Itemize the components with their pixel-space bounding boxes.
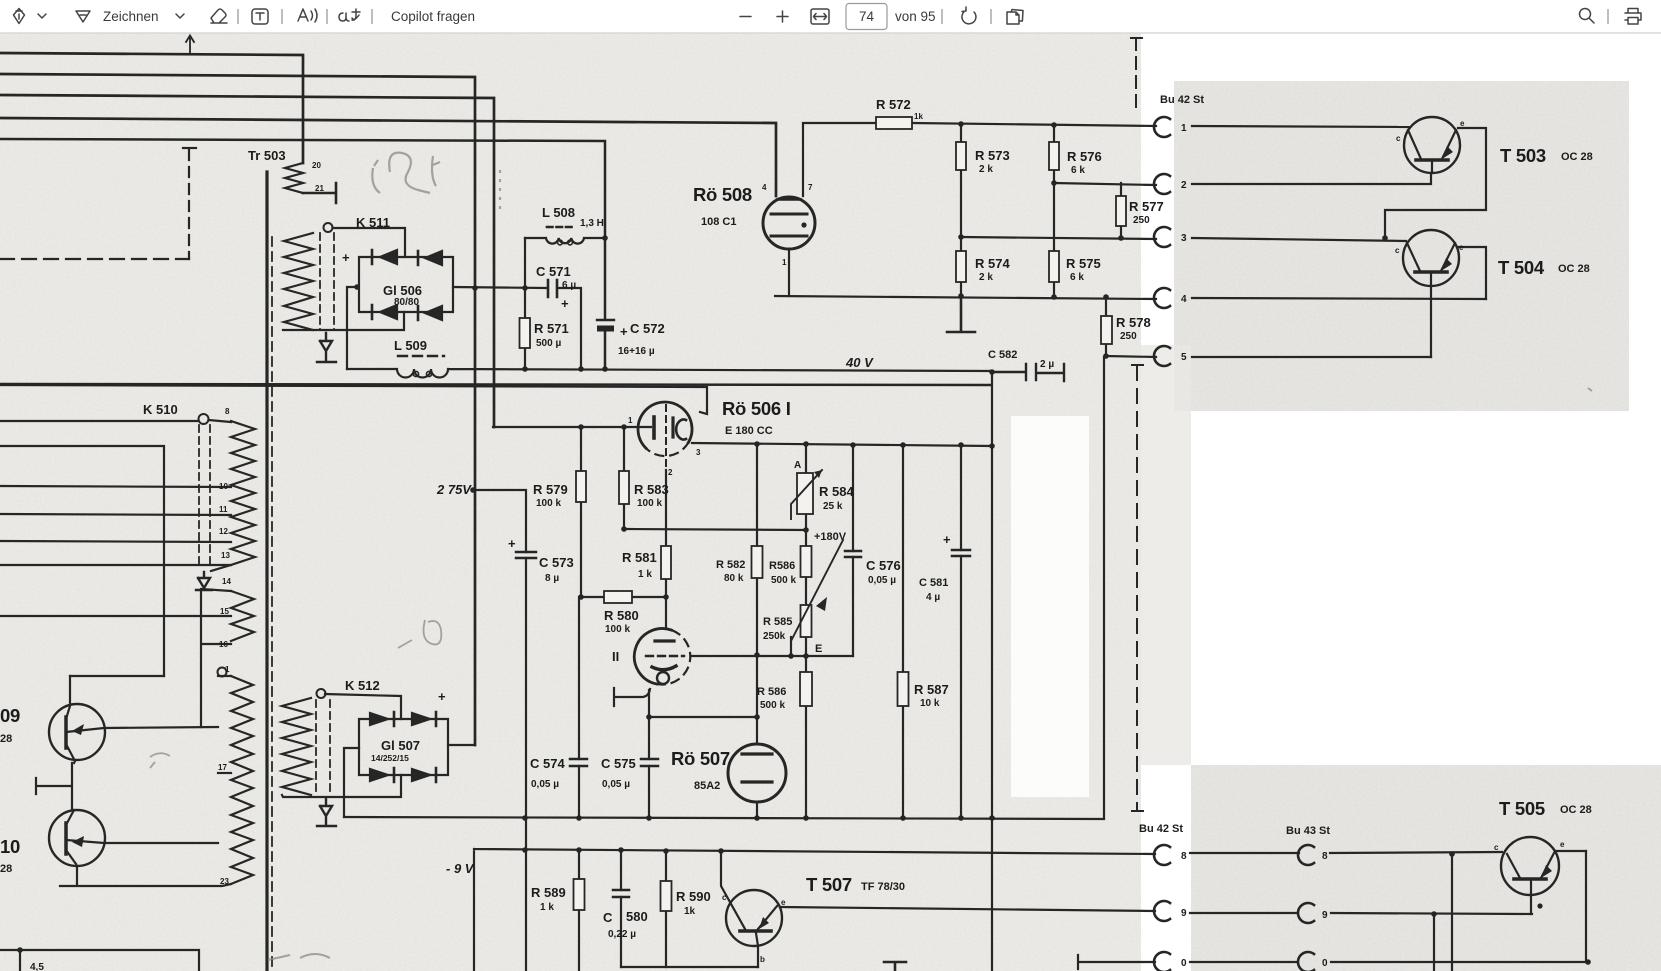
svg-text:T 503: T 503 <box>1500 145 1546 166</box>
svg-text:E: E <box>815 643 822 655</box>
svg-text:25 k: 25 k <box>823 501 843 512</box>
svg-text:13: 13 <box>221 551 230 560</box>
svg-text:Bu 43 St: Bu 43 St <box>1286 825 1330 837</box>
svg-text:15: 15 <box>220 607 229 616</box>
svg-text:09: 09 <box>0 705 20 726</box>
svg-text:2: 2 <box>1181 180 1187 191</box>
svg-text:R 585: R 585 <box>763 616 792 628</box>
svg-text:1 k: 1 k <box>540 902 554 913</box>
svg-text:6 k: 6 k <box>1070 272 1084 283</box>
svg-text:TF 78/30: TF 78/30 <box>861 881 905 893</box>
svg-text:80 k: 80 k <box>724 573 744 584</box>
svg-text:3: 3 <box>1181 233 1187 244</box>
svg-text:0,05 µ: 0,05 µ <box>531 779 559 790</box>
svg-text:1,3 H: 1,3 H <box>580 218 604 229</box>
svg-text:e: e <box>781 898 786 907</box>
svg-text:14/252/15: 14/252/15 <box>371 753 409 763</box>
svg-text:c: c <box>1396 134 1401 143</box>
svg-text:21: 21 <box>315 184 324 193</box>
svg-text:17: 17 <box>218 763 227 772</box>
svg-text:100 k: 100 k <box>536 498 561 509</box>
svg-text:C 572: C 572 <box>630 321 665 336</box>
svg-text:K 512: K 512 <box>345 678 380 693</box>
svg-text:c: c <box>722 893 727 902</box>
svg-text:3: 3 <box>696 448 701 457</box>
svg-text:Rö 506 I: Rö 506 I <box>722 398 791 419</box>
svg-text:R 579: R 579 <box>533 482 568 497</box>
svg-text:R 573: R 573 <box>975 148 1010 163</box>
svg-text:Zeichnen: Zeichnen <box>103 9 159 24</box>
svg-text:C 575: C 575 <box>601 756 636 771</box>
svg-text:Copilot fragen: Copilot fragen <box>391 9 475 24</box>
svg-text:2 k: 2 k <box>979 164 993 175</box>
svg-text:8: 8 <box>1181 851 1187 862</box>
svg-text:R586: R586 <box>769 560 795 572</box>
svg-text:10: 10 <box>219 482 228 491</box>
svg-text:c: c <box>1395 246 1400 255</box>
svg-text:108 C1: 108 C1 <box>701 216 736 228</box>
svg-text:+: + <box>943 532 951 547</box>
svg-text:0,05 µ: 0,05 µ <box>868 575 896 586</box>
svg-text:R 586: R 586 <box>757 686 786 698</box>
svg-text:4: 4 <box>762 183 767 192</box>
svg-text:R 584: R 584 <box>819 484 854 499</box>
svg-text:0: 0 <box>1322 958 1328 969</box>
svg-text:Gl 506: Gl 506 <box>383 283 422 298</box>
svg-text:12: 12 <box>219 527 228 536</box>
svg-text:1: 1 <box>628 416 633 425</box>
svg-text:20: 20 <box>312 161 321 170</box>
svg-text:2: 2 <box>668 468 673 477</box>
svg-text:0: 0 <box>1181 958 1187 969</box>
svg-text:5: 5 <box>1181 352 1187 363</box>
svg-text:1k: 1k <box>684 906 696 917</box>
svg-text:II: II <box>612 649 619 664</box>
svg-text:0,05 µ: 0,05 µ <box>602 779 630 790</box>
svg-text:500 k: 500 k <box>771 575 796 586</box>
svg-text:C 573: C 573 <box>539 555 574 570</box>
svg-text:e: e <box>1560 840 1565 849</box>
svg-text:R 574: R 574 <box>975 256 1010 271</box>
svg-text:R 587: R 587 <box>914 682 949 697</box>
svg-text:R 572: R 572 <box>876 97 911 112</box>
svg-text:28: 28 <box>0 863 12 875</box>
svg-text:4 µ: 4 µ <box>926 592 940 603</box>
svg-text:E 180 CC: E 180 CC <box>725 425 773 437</box>
svg-text:OC 28: OC 28 <box>1560 804 1592 816</box>
svg-text:R 590: R 590 <box>676 889 711 904</box>
svg-text:Bu 42 St: Bu 42 St <box>1160 94 1204 106</box>
svg-text:C 576: C 576 <box>866 558 901 573</box>
svg-text:23: 23 <box>220 877 229 886</box>
svg-text:+: + <box>438 689 446 704</box>
svg-text:2 k: 2 k <box>979 272 993 283</box>
svg-text:40 V: 40 V <box>845 355 874 370</box>
svg-text:+: + <box>342 250 350 265</box>
svg-text:C: C <box>603 910 613 925</box>
svg-text:R 582: R 582 <box>716 559 745 571</box>
svg-text:C 571: C 571 <box>536 264 571 279</box>
svg-text:7: 7 <box>808 183 813 192</box>
svg-text:OC 28: OC 28 <box>1558 263 1590 275</box>
svg-text:10: 10 <box>0 836 20 857</box>
svg-text:250k: 250k <box>763 631 786 642</box>
svg-text:9: 9 <box>1322 910 1328 921</box>
svg-text:11: 11 <box>219 505 228 514</box>
svg-text:C 581: C 581 <box>919 577 948 589</box>
svg-text:250: 250 <box>1133 215 1150 226</box>
svg-text:10 k: 10 k <box>920 698 940 709</box>
svg-text:16: 16 <box>219 640 228 649</box>
svg-text:74: 74 <box>859 9 875 24</box>
svg-text:Rö 507: Rö 507 <box>671 748 730 769</box>
svg-text:R 589: R 589 <box>531 885 566 900</box>
svg-text:500 k: 500 k <box>760 700 785 711</box>
svg-text:1: 1 <box>225 665 230 674</box>
svg-text:80/80: 80/80 <box>394 297 419 308</box>
svg-text:250: 250 <box>1120 331 1137 342</box>
svg-text:T 507: T 507 <box>806 874 852 895</box>
svg-text:L 508: L 508 <box>542 205 575 220</box>
svg-text:+: + <box>561 296 569 311</box>
svg-text:OC 28: OC 28 <box>1561 151 1593 163</box>
svg-text:R 580: R 580 <box>604 608 639 623</box>
svg-text:6 µ: 6 µ <box>562 280 576 291</box>
svg-text:6 k: 6 k <box>1071 165 1085 176</box>
svg-text:8: 8 <box>1322 851 1328 862</box>
svg-text:L 509: L 509 <box>394 338 427 353</box>
svg-text:C 574: C 574 <box>530 756 565 771</box>
svg-text:R 583: R 583 <box>634 482 669 497</box>
svg-text:1: 1 <box>782 258 787 267</box>
svg-text:T 504: T 504 <box>1498 257 1545 278</box>
svg-text:R 581: R 581 <box>622 550 657 565</box>
svg-text:b: b <box>760 955 765 964</box>
svg-text:+180V: +180V <box>814 531 847 543</box>
svg-text:+: + <box>508 536 516 551</box>
svg-text:R 577: R 577 <box>1129 199 1164 214</box>
svg-text:e: e <box>1460 119 1465 128</box>
svg-text:von 95: von 95 <box>895 9 936 24</box>
svg-text:580: 580 <box>626 909 648 924</box>
svg-text:85A2: 85A2 <box>694 780 720 792</box>
svg-text:2 µ: 2 µ <box>1040 359 1054 370</box>
svg-text:K 510: K 510 <box>143 402 178 417</box>
svg-text:100 k: 100 k <box>637 498 662 509</box>
svg-text:16+16 µ: 16+16 µ <box>618 346 655 357</box>
svg-text:1: 1 <box>1181 123 1187 134</box>
svg-text:c: c <box>1494 843 1499 852</box>
svg-text:8: 8 <box>225 407 230 416</box>
svg-text:Tr 503: Tr 503 <box>248 148 286 163</box>
svg-text:+: + <box>620 324 628 339</box>
svg-text:4,5: 4,5 <box>30 962 44 971</box>
svg-text:28: 28 <box>0 733 12 745</box>
svg-text:100 k: 100 k <box>605 624 630 635</box>
svg-text:8 µ: 8 µ <box>545 573 559 584</box>
svg-text:2 75V: 2 75V <box>436 482 472 497</box>
svg-text:0,22 µ: 0,22 µ <box>608 929 636 940</box>
svg-text:Gl 507: Gl 507 <box>381 738 420 753</box>
svg-text:1 k: 1 k <box>638 569 652 580</box>
svg-text:A: A <box>794 460 801 471</box>
svg-text:14: 14 <box>222 577 231 586</box>
svg-text:Rö 508: Rö 508 <box>693 184 752 205</box>
svg-text:R 578: R 578 <box>1116 315 1151 330</box>
svg-text:R 576: R 576 <box>1067 149 1102 164</box>
svg-text:R 575: R 575 <box>1066 256 1101 271</box>
svg-text:- 9 V: - 9 V <box>446 861 475 876</box>
svg-text:e: e <box>1459 243 1464 252</box>
svg-text:K 511: K 511 <box>356 215 390 230</box>
svg-text:C 582: C 582 <box>988 349 1017 361</box>
svg-text:Bu 42 St: Bu 42 St <box>1139 823 1183 835</box>
svg-text:500 µ: 500 µ <box>536 338 561 349</box>
svg-text:9: 9 <box>1181 908 1187 919</box>
svg-text:R 571: R 571 <box>534 321 569 336</box>
svg-text:T 505: T 505 <box>1499 798 1545 819</box>
svg-text:4: 4 <box>1181 294 1187 305</box>
svg-text:1k: 1k <box>914 112 923 121</box>
